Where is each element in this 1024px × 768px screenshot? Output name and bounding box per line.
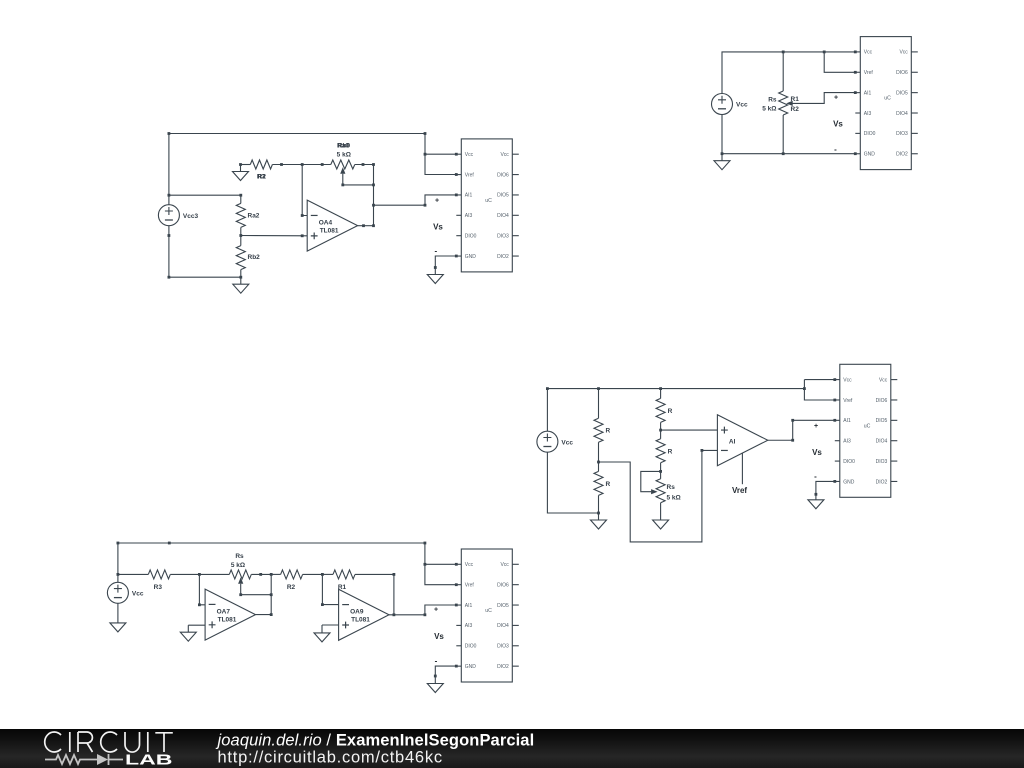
svg-text:Rb0: Rb0: [338, 143, 351, 150]
ground (circuit 1): [714, 154, 730, 170]
svg-text:-: -: [435, 657, 438, 666]
microcontroller uC (circuit 1): [855, 37, 918, 170]
svg-text:+: +: [435, 198, 439, 205]
svg-text:DIO2: DIO2: [497, 664, 509, 670]
wire bottom rail (circuit 2): [168, 226, 243, 279]
svg-text:DIO6: DIO6: [497, 582, 509, 588]
footer bar: [0, 729, 1024, 768]
wire R1 feedback (circuit 4): [393, 573, 396, 616]
wire minus input loop (circuit 3): [599, 449, 718, 542]
wire wiper link (circuit 4): [239, 584, 272, 596]
ground (circuit 4 OA9): [314, 625, 330, 642]
svg-text:AI: AI: [729, 438, 736, 445]
svg-text:Vcc: Vcc: [736, 102, 748, 109]
label - (circuit 4): [435, 657, 438, 666]
wire feedback right column (circuit 2): [372, 163, 375, 227]
resistor R lower-left (circuit 3): [594, 462, 611, 513]
svg-text:DIO3: DIO3: [497, 644, 509, 650]
svg-text:R3: R3: [154, 584, 163, 591]
svg-text:uC: uC: [485, 198, 492, 204]
svg-text:R2: R2: [791, 106, 800, 113]
svg-text:TL081: TL081: [320, 227, 339, 234]
wire output to AI1 (circuit 2): [374, 194, 458, 207]
resistor R3 R2 overlapped label (circuit 2): [241, 160, 303, 181]
svg-text:Vs: Vs: [433, 222, 443, 231]
svg-text:-: -: [814, 472, 817, 481]
wire supply to Vcc Vref pins (circuit 2): [424, 134, 458, 176]
label + (circuit 2): [435, 198, 439, 205]
wire wiper link (circuit 2): [341, 174, 375, 187]
svg-text:DIO3: DIO3: [896, 131, 908, 137]
wire Vcc pin link (circuit 4): [425, 563, 456, 565]
svg-text:R: R: [606, 481, 611, 488]
svg-text:Vcc: Vcc: [465, 152, 474, 158]
wire R3 to feedback node (circuit 2): [239, 163, 364, 166]
svg-text:Vs: Vs: [833, 120, 843, 129]
svg-text:DIO6: DIO6: [896, 70, 908, 76]
wire wiper to AI1 (circuit 1): [792, 91, 857, 103]
ground (circuit 4 source): [110, 603, 126, 632]
svg-text:http://circuitlab.com/ctb46kc: http://circuitlab.com/ctb46kc: [218, 749, 443, 767]
node pot right terminal (circuit 4): [259, 573, 262, 576]
resistor R upper-mid (circuit 3): [656, 389, 673, 431]
svg-text:DIO5: DIO5: [497, 603, 509, 609]
op-amp OA4 TL081 (circuit 2): [307, 200, 357, 251]
ground (circuit 3 left): [591, 513, 607, 529]
wire top rail (circuit 4): [117, 542, 427, 583]
microcontroller uC (circuit 4): [456, 549, 519, 682]
svg-text:DIO2: DIO2: [497, 254, 509, 260]
svg-text:AI3: AI3: [864, 111, 872, 117]
wire divider branch (circuit 2): [169, 194, 242, 197]
microcontroller uC (circuit 2): [456, 139, 519, 272]
potentiometer Rb0 5k (circuit 2): [331, 143, 374, 174]
svg-text:DIO4: DIO4: [497, 623, 509, 629]
svg-text:Vs: Vs: [434, 632, 444, 641]
svg-text:AI3: AI3: [465, 213, 473, 219]
svg-text:DIO4: DIO4: [497, 213, 509, 219]
label - (circuit 1): [834, 145, 837, 154]
wire output to AI1 (circuit 3): [768, 419, 836, 442]
label - (circuit 3): [814, 472, 817, 481]
svg-text:R2: R2: [258, 174, 267, 181]
svg-text:TL081: TL081: [351, 617, 370, 624]
label + (circuit 1): [834, 95, 838, 102]
wire ground rail (circuit 1): [721, 115, 857, 156]
label + (circuit 3): [814, 423, 818, 430]
svg-text:DIO6: DIO6: [497, 172, 509, 178]
svg-text:GND: GND: [465, 664, 477, 670]
svg-text:AI1: AI1: [465, 193, 473, 199]
svg-text:5 kΩ: 5 kΩ: [667, 494, 681, 501]
label + (circuit 4): [434, 606, 438, 613]
svg-text:AI1: AI1: [843, 418, 851, 424]
svg-text:LAB: LAB: [125, 753, 173, 768]
svg-text:DIO5: DIO5: [896, 90, 908, 96]
svg-text:AI3: AI3: [843, 439, 851, 445]
svg-text:Vcc: Vcc: [132, 590, 144, 597]
svg-text:R: R: [606, 428, 611, 435]
svg-text:Vcc: Vcc: [500, 152, 509, 158]
svg-text:GND: GND: [465, 254, 477, 260]
ground (circuit 2 chip): [427, 268, 443, 284]
svg-text:Vcc3: Vcc3: [183, 213, 199, 220]
svg-text:GND: GND: [864, 152, 876, 158]
svg-text:Rs: Rs: [667, 484, 676, 491]
svg-text:Vs: Vs: [812, 448, 822, 457]
svg-text:DIO3: DIO3: [876, 459, 888, 465]
svg-text:OA7: OA7: [217, 608, 231, 615]
wire output (circuit 2): [358, 224, 374, 227]
svg-text:Vcc: Vcc: [843, 377, 852, 383]
op-amp AI (circuit 3): [717, 415, 767, 466]
svg-text:AI3: AI3: [465, 623, 473, 629]
wire inverting input drop (circuit 2): [301, 165, 307, 217]
op-amp OA9 TL081 (circuit 4): [339, 589, 389, 640]
svg-text:DIO0: DIO0: [864, 131, 876, 137]
svg-text:GND: GND: [843, 479, 855, 485]
svg-text:Vref: Vref: [864, 70, 874, 76]
svg-text:AI1: AI1: [864, 90, 872, 96]
ground (circuit 3 chip): [808, 494, 824, 509]
wire plus input (circuit 3): [659, 429, 717, 432]
svg-text:Vcc: Vcc: [500, 562, 509, 568]
wire supply bar to Vcc Vref (circuit 3): [804, 378, 836, 401]
svg-text:5 kΩ: 5 kΩ: [762, 106, 776, 113]
node divider A (circuit 3): [597, 461, 600, 464]
wire OA9 plus to ground (circuit 4): [322, 624, 339, 626]
wire wiper link (circuit 3): [641, 470, 662, 492]
svg-text:R1: R1: [791, 96, 800, 103]
wire Vcc pin link (circuit 2): [425, 153, 456, 155]
voltage source Vcc (circuit 4): [107, 582, 143, 603]
wire OA9 output to AI1 (circuit 4): [389, 604, 458, 617]
wire GND pin to ground (circuit 4): [434, 665, 458, 678]
label Vs (circuit 4): [434, 632, 444, 641]
resistor R upper-left (circuit 3): [594, 389, 611, 462]
svg-text:joaquin.del.rio / ExamenInelSe: joaquin.del.rio / ExamenInelSegonParcial: [216, 732, 535, 750]
svg-text:Ra2: Ra2: [248, 213, 260, 220]
resistor R lower-mid (circuit 3): [656, 430, 673, 471]
wire noninverting input (circuit 2): [239, 234, 307, 237]
svg-text:DIO3: DIO3: [497, 233, 509, 239]
svg-text:-: -: [834, 145, 837, 154]
node R3-pot junction (circuit 4): [198, 573, 201, 576]
svg-text:DIO0: DIO0: [843, 459, 855, 465]
svg-text:Vcc: Vcc: [864, 50, 873, 56]
svg-text:DIO5: DIO5: [876, 418, 888, 424]
svg-text:DIO6: DIO6: [876, 398, 888, 404]
svg-text:+: +: [834, 95, 838, 102]
CircuitLab logo CIRCUIT: [45, 732, 173, 752]
CircuitLab logo resistor-diode glyph: [45, 755, 97, 764]
svg-text:Vref: Vref: [732, 486, 747, 495]
svg-text:R: R: [668, 408, 673, 415]
wire supply bar to Vcc Vref (circuit 4): [424, 543, 458, 586]
wire Vref branch (circuit 1): [824, 52, 857, 74]
label Vs (circuit 1): [833, 120, 843, 129]
ground (circuit 4 chip): [427, 676, 443, 693]
svg-text:R: R: [668, 448, 673, 455]
svg-text:+: +: [814, 423, 818, 430]
svg-text:Vref: Vref: [465, 582, 475, 588]
svg-text:+: +: [434, 606, 438, 613]
svg-text:uC: uC: [884, 96, 891, 102]
svg-text:Vref: Vref: [465, 172, 475, 178]
svg-text:uC: uC: [485, 608, 492, 614]
wire Vcc pin link (circuit 3): [804, 379, 834, 381]
resistor R2 (circuit 4): [271, 570, 322, 591]
ground (circuit 3 mid): [653, 513, 669, 529]
potentiometer Rs 5k (circuit 4): [199, 553, 271, 584]
wire OA7 output feedback (circuit 4): [256, 573, 273, 616]
wire GND pin to ground (circuit 3): [815, 480, 837, 496]
svg-text:5 kΩ: 5 kΩ: [337, 152, 351, 159]
ground (circuit 2 divider): [233, 277, 249, 293]
svg-text:Rs: Rs: [235, 553, 244, 560]
resistor R3 (circuit 4): [118, 570, 199, 591]
svg-text:DIO4: DIO4: [896, 111, 908, 117]
svg-text:DIO5: DIO5: [497, 193, 509, 199]
svg-text:OA9: OA9: [350, 609, 364, 616]
resistor Rb2 (circuit 2): [236, 236, 260, 278]
svg-text:DIO0: DIO0: [465, 233, 477, 239]
voltage source Vcc (circuit 3): [537, 431, 573, 452]
wire OA7 inverting drop (circuit 4): [198, 574, 205, 606]
wire OA9 inverting drop (circuit 4): [321, 573, 339, 606]
svg-text:5 kΩ: 5 kΩ: [231, 562, 245, 569]
resistor R1 (circuit 4): [322, 570, 394, 591]
potentiometer Rs 5k (circuit 1): [762, 52, 799, 154]
wire Vcc top rail (circuit 1): [722, 51, 857, 94]
Vref supply pin (circuit 3): [732, 453, 747, 495]
svg-text:AI1: AI1: [465, 603, 473, 609]
wire GND pin to ground (circuit 2): [434, 255, 458, 269]
svg-text:uC: uC: [864, 423, 871, 429]
microcontroller uC (circuit 3): [835, 364, 898, 497]
voltage source Vcc (circuit 1): [712, 94, 748, 115]
resistor Ra2 (circuit 2): [236, 195, 260, 235]
svg-text:Vcc: Vcc: [899, 50, 908, 56]
svg-text:Rb2: Rb2: [248, 254, 261, 261]
potentiometer Rs 5k (circuit 3): [651, 471, 681, 513]
voltage source Vcc3 (circuit 2): [158, 205, 198, 226]
svg-text:R2: R2: [287, 584, 296, 591]
op-amp OA7 TL081 (circuit 4): [205, 589, 255, 640]
label - (circuit 2): [434, 247, 437, 256]
svg-text:Vcc: Vcc: [879, 377, 888, 383]
label Vs (circuit 2): [433, 222, 443, 231]
svg-text:DIO0: DIO0: [465, 644, 477, 650]
svg-text:Vcc: Vcc: [465, 562, 474, 568]
svg-text:Vcc: Vcc: [561, 439, 573, 446]
svg-text:DIO2: DIO2: [876, 479, 888, 485]
svg-text:Rs: Rs: [768, 97, 777, 104]
svg-text:Vref: Vref: [843, 398, 853, 404]
svg-text:DIO4: DIO4: [876, 439, 888, 445]
svg-text:DIO2: DIO2: [896, 152, 908, 158]
ground (circuit 2 R3): [233, 165, 249, 181]
wire top rail (circuit 3): [546, 387, 806, 431]
wire OA7 plus to ground (circuit 4): [188, 624, 205, 626]
svg-text:-: -: [434, 247, 437, 256]
wire bottom (circuit 3): [547, 452, 599, 514]
svg-text:OA4: OA4: [319, 219, 333, 226]
label Vs (circuit 3): [812, 448, 822, 457]
wire top rail (circuit 2): [168, 132, 427, 205]
svg-text:TL081: TL081: [218, 616, 237, 623]
ground (circuit 4 OA7): [180, 625, 196, 641]
